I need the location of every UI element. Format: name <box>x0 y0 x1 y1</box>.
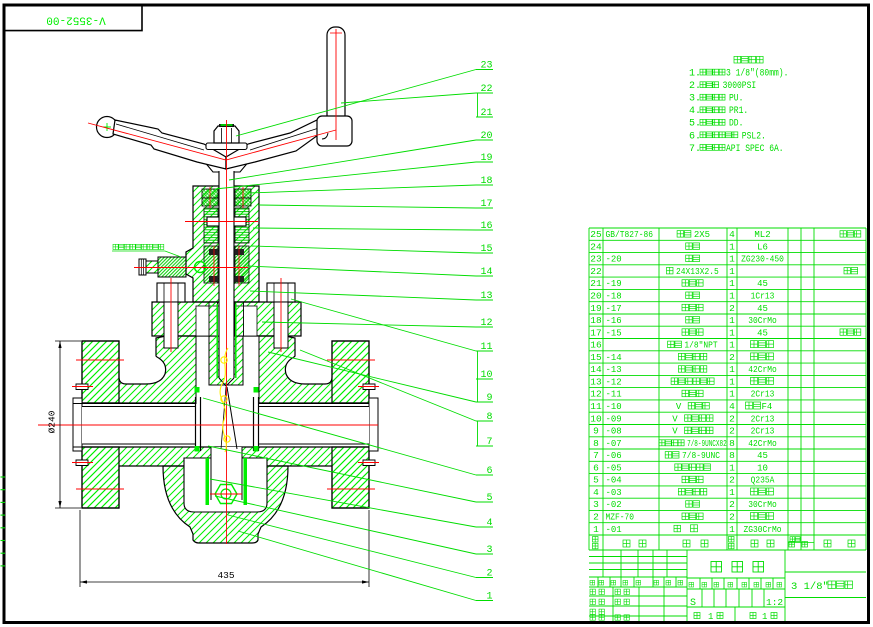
raised face ring right flange <box>369 398 378 451</box>
yellow circle 3 <box>224 436 230 442</box>
svg-text:6.: 6. <box>689 131 701 142</box>
svg-text:1: 1 <box>729 254 735 265</box>
svg-text:8: 8 <box>729 438 735 449</box>
bonnet neck wall right <box>235 302 244 336</box>
svg-text:7/8-9UNCX82: 7/8-9UNCX82 <box>687 439 727 449</box>
svg-text:23: 23 <box>590 254 602 265</box>
svg-text:1: 1 <box>729 290 735 301</box>
svg-text:21: 21 <box>590 278 602 289</box>
svg-text:Q235A: Q235A <box>751 476 775 486</box>
table header row <box>593 537 599 543</box>
svg-text:2: 2 <box>729 352 735 363</box>
svg-text:10: 10 <box>480 370 492 381</box>
svg-text:45: 45 <box>757 451 768 461</box>
svg-text:18: 18 <box>480 176 492 187</box>
svg-text:42CrMo: 42CrMo <box>748 439 777 449</box>
svg-text:18: 18 <box>590 315 602 326</box>
handle centerline polyline <box>88 123 336 160</box>
gate diagonal (item 4) <box>227 387 237 449</box>
bonnet neck extension hatched into body <box>209 336 243 385</box>
svg-text:2: 2 <box>729 413 735 424</box>
svg-text:17: 17 <box>480 199 492 210</box>
svg-text:1: 1 <box>729 340 735 351</box>
svg-text:3000PSI: 3000PSI <box>723 80 757 92</box>
svg-text:8: 8 <box>486 412 492 423</box>
bracket 8-7 <box>477 421 479 446</box>
svg-text:3: 3 <box>486 545 492 556</box>
svg-text:7/8-9UNC: 7/8-9UNC <box>682 451 721 461</box>
svg-text:1: 1 <box>729 327 735 338</box>
guide plate right green <box>244 458 248 505</box>
svg-text:-17: -17 <box>606 304 622 314</box>
svg-text:1: 1 <box>729 315 735 326</box>
svg-text:-08: -08 <box>606 427 622 437</box>
svg-text:4: 4 <box>593 487 599 498</box>
bore lower wall lines <box>73 446 196 448</box>
svg-text:5: 5 <box>486 493 492 504</box>
guide plate left (item 5) green <box>206 458 210 505</box>
balloon 6 leader/underline <box>203 398 476 475</box>
balloon 23 leader/underline <box>236 70 476 137</box>
svg-text:ML2: ML2 <box>754 230 770 240</box>
svg-text:PR1.: PR1. <box>729 105 748 117</box>
sheet numbers <box>694 613 700 619</box>
notch tick right upper <box>358 386 379 388</box>
grease fitting ball <box>195 262 206 273</box>
svg-text:12: 12 <box>480 318 492 329</box>
seat left (item 3) line pair <box>195 397 197 451</box>
svg-text:-10: -10 <box>606 402 622 412</box>
notch tick right lower <box>358 462 379 464</box>
svg-text:1: 1 <box>729 462 735 473</box>
bearing tick left <box>209 187 211 208</box>
packing rings black left top <box>209 249 218 255</box>
svg-text:1: 1 <box>593 524 599 535</box>
packing rings black right bottom <box>235 276 244 282</box>
title block outer <box>589 550 866 621</box>
yellow spring squiggle <box>220 348 228 452</box>
stud nut right <box>267 283 295 302</box>
seat right line pair <box>253 397 255 451</box>
left flange lower part <box>82 447 119 508</box>
valve body V1 hatched silhouette (upper band + flanges + lower band + bowl) <box>82 336 369 403</box>
svg-text:7.: 7. <box>689 144 701 155</box>
bonnet column hatched <box>186 186 259 302</box>
gate passage below bore <box>211 447 242 460</box>
svg-text:3 1/8"(80mm).: 3 1/8"(80mm). <box>726 68 788 80</box>
balloon 11 leader/underline <box>291 299 476 351</box>
svg-text:1: 1 <box>729 487 735 498</box>
border tick marks left edge <box>1 477 6 566</box>
svg-text:V-3552-00: V-3552-00 <box>46 14 105 26</box>
svg-text:3 1/8": 3 1/8" <box>791 581 829 593</box>
yellow circle 2 <box>221 396 227 402</box>
svg-text:-18: -18 <box>606 291 622 301</box>
svg-text:6: 6 <box>593 462 599 473</box>
svg-text:5: 5 <box>593 475 599 486</box>
svg-text:PU.: PU. <box>729 93 743 105</box>
svg-text:19: 19 <box>480 153 492 164</box>
stud centerline right <box>280 278 282 352</box>
svg-text:2X5: 2X5 <box>694 230 710 240</box>
svg-text:8: 8 <box>593 438 599 449</box>
svg-text:3.: 3. <box>689 94 701 105</box>
svg-text:V: V <box>676 402 682 412</box>
packing rings black left bottom <box>209 276 218 282</box>
svg-text:19: 19 <box>590 303 602 314</box>
svg-text:GB/T827-86: GB/T827-86 <box>606 230 654 240</box>
svg-text:13: 13 <box>590 376 602 387</box>
flange notch left lower <box>76 460 88 466</box>
svg-text:20: 20 <box>480 131 492 142</box>
grease fitting assembly (items 16/2) <box>158 257 186 277</box>
balloon 4 leader/underline <box>210 479 476 527</box>
svg-text:20: 20 <box>590 290 602 301</box>
balloon 15 leader/underline <box>251 246 476 253</box>
bore upper wall lines <box>73 403 196 405</box>
stud shank left <box>164 302 178 348</box>
svg-text:1: 1 <box>729 364 735 375</box>
svg-text:-13: -13 <box>606 365 622 375</box>
svg-text:11: 11 <box>480 342 492 353</box>
svg-text:16: 16 <box>480 221 492 232</box>
bottom bowl of body <box>163 466 288 543</box>
svg-text:MZF-70: MZF-70 <box>606 513 635 523</box>
vertical grip centerline <box>335 29 337 140</box>
bottom grease valve hex (item 2) <box>215 485 237 504</box>
body lower band <box>82 447 369 508</box>
svg-text:4: 4 <box>486 518 492 529</box>
svg-text:V: V <box>672 414 678 424</box>
svg-text:1: 1 <box>729 524 735 535</box>
svg-text:-01: -01 <box>606 525 622 535</box>
handwheel hub hexagon <box>203 149 250 172</box>
svg-text:22: 22 <box>590 266 602 277</box>
svg-text:42CrMo: 42CrMo <box>748 365 777 375</box>
balloon 5 leader/underline <box>208 446 476 502</box>
svg-text:1/8"NPT: 1/8"NPT <box>684 341 718 351</box>
right flange lower part <box>332 447 369 508</box>
svg-text:17: 17 <box>590 327 601 338</box>
balloon 8 leader/underline <box>300 350 476 421</box>
svg-text:1: 1 <box>486 592 492 603</box>
svg-text:-09: -09 <box>606 414 622 424</box>
bearing block left (item 19 area) <box>202 189 218 198</box>
balloon 1 leader/underline <box>238 531 476 601</box>
svg-text:2: 2 <box>593 512 599 523</box>
svg-text:14: 14 <box>480 267 492 278</box>
svg-text:1: 1 <box>762 612 767 622</box>
flange notch right lower <box>363 460 375 466</box>
svg-text:45: 45 <box>757 304 768 314</box>
bore horizontal centerline <box>38 424 378 426</box>
lower packing left <box>204 246 218 283</box>
svg-text:9: 9 <box>486 393 492 404</box>
stem tip cone <box>219 378 234 386</box>
svg-text:6: 6 <box>486 466 492 477</box>
svg-text:Ø240: Ø240 <box>47 410 58 433</box>
svg-text:12: 12 <box>590 389 602 400</box>
svg-text:22: 22 <box>480 84 492 95</box>
svg-text:2: 2 <box>729 426 735 437</box>
right flange upper part <box>332 341 369 403</box>
svg-text:24X13X2.5: 24X13X2.5 <box>676 267 719 277</box>
svg-text:11: 11 <box>590 401 602 412</box>
svg-text:F4: F4 <box>762 402 773 412</box>
vertical grip of handle <box>327 27 345 123</box>
svg-text:ZG30CrMo: ZG30CrMo <box>744 525 782 535</box>
svg-text:25: 25 <box>590 229 602 240</box>
right flange bolt line lower <box>327 488 375 490</box>
balloon 2 leader/underline <box>228 515 476 578</box>
svg-text:45: 45 <box>757 279 768 289</box>
notch tick left lower <box>72 462 93 464</box>
svg-text:-11: -11 <box>606 390 622 400</box>
balloon 22 leader/underline <box>341 93 476 103</box>
main vertical centerline <box>226 120 228 544</box>
dimension D240 left <box>55 340 81 342</box>
packing column left threads <box>204 208 218 243</box>
svg-text:-16: -16 <box>606 316 622 326</box>
annotation text (align with stem note) <box>113 244 164 249</box>
packing tick right <box>238 246 240 286</box>
balloon 16 leader/underline <box>253 228 476 230</box>
bottom chamber cavity (white) <box>184 458 267 512</box>
balloon 7 leader/underline <box>476 445 493 447</box>
svg-text:2: 2 <box>729 475 735 486</box>
right flange bolt line upper <box>327 359 375 361</box>
stem seal lines green right <box>235 304 237 378</box>
svg-text:21: 21 <box>480 108 492 119</box>
svg-text:-07: -07 <box>606 439 622 449</box>
handwheel left grip circle <box>97 117 118 138</box>
balloon 21 leader/underline <box>476 116 493 118</box>
yellow circle 1 <box>221 357 227 363</box>
balloon 20 leader/underline <box>229 140 476 180</box>
raised face ring left flange <box>73 398 82 451</box>
stem seal lines green left <box>216 304 218 378</box>
svg-text:-02: -02 <box>606 500 622 510</box>
bonnet neck wall left <box>209 302 218 336</box>
svg-text:4: 4 <box>729 229 735 240</box>
parts table grid <box>589 228 866 550</box>
svg-text:1: 1 <box>729 376 735 387</box>
plug crosshair red <box>210 493 242 495</box>
svg-text:API SPEC 6A.: API SPEC 6A. <box>726 143 784 155</box>
svg-text:10: 10 <box>757 463 768 473</box>
title strip box top-left <box>4 5 142 31</box>
stem (item 20) white shaft <box>219 148 234 378</box>
svg-text:2Cr13: 2Cr13 <box>751 390 775 400</box>
svg-text:7: 7 <box>486 437 492 448</box>
svg-text:1.: 1. <box>689 69 701 80</box>
svg-text:2: 2 <box>729 303 735 314</box>
svg-text:3: 3 <box>593 499 599 510</box>
bracket 22-21 <box>477 93 479 117</box>
title: assembly drawing big text <box>711 562 722 573</box>
svg-text:ZG230-450: ZG230-450 <box>741 255 784 265</box>
flange notch left upper <box>76 384 88 390</box>
tiny rev header texts <box>590 580 595 585</box>
svg-text:-03: -03 <box>606 488 622 498</box>
svg-text:4.: 4. <box>689 106 701 117</box>
svg-text:-20: -20 <box>606 255 622 265</box>
tech requirements title <box>734 56 763 63</box>
svg-text:1: 1 <box>729 266 735 277</box>
svg-text:1: 1 <box>708 612 713 622</box>
stem between hub and bonnet <box>219 171 234 186</box>
packing rings black right top <box>235 249 244 255</box>
stud shank right <box>274 302 288 348</box>
svg-text:30CrMo: 30CrMo <box>748 316 777 326</box>
svg-text:-04: -04 <box>606 476 622 486</box>
svg-text:5.: 5. <box>689 119 701 130</box>
svg-text:2Cr13: 2Cr13 <box>751 414 775 424</box>
bonnet flange plate <box>152 302 301 336</box>
washer under nut <box>206 143 247 150</box>
stud nut left (item 7) <box>157 283 185 302</box>
gate chamber white interior <box>196 336 259 404</box>
grip top tick <box>330 32 342 34</box>
svg-text:13: 13 <box>480 291 492 302</box>
svg-text:10: 10 <box>590 413 602 424</box>
packing column right threads <box>235 208 249 243</box>
signature labels <box>590 589 595 594</box>
svg-text:2: 2 <box>729 499 735 510</box>
left flange upper part <box>82 341 119 403</box>
svg-text:24: 24 <box>590 241 602 252</box>
svg-text:435: 435 <box>217 570 234 581</box>
balloon 13 leader/underline <box>250 291 476 300</box>
svg-text:2: 2 <box>486 569 492 580</box>
stem washer bar <box>207 217 246 226</box>
svg-text:2.: 2. <box>689 81 701 92</box>
svg-text:DD.: DD. <box>729 118 743 130</box>
balloon 17 leader/underline <box>259 205 476 208</box>
balloon 19 leader/underline <box>215 162 476 189</box>
balloon 14 leader/underline <box>248 266 476 276</box>
svg-text:-05: -05 <box>606 463 622 473</box>
svg-text:-14: -14 <box>606 353 622 363</box>
grease fitting hex cap <box>139 259 146 275</box>
svg-text:-15: -15 <box>606 328 622 338</box>
notch tick left upper <box>72 386 93 388</box>
svg-text:-12: -12 <box>606 377 622 387</box>
svg-text:PSL2.: PSL2. <box>742 130 766 142</box>
bearing tick right <box>242 187 244 208</box>
balloon 18 leader/underline <box>248 185 476 193</box>
left flange bolt line lower <box>76 488 124 490</box>
svg-text:1: 1 <box>729 241 735 252</box>
handwheel right arm <box>226 120 325 169</box>
svg-text:7: 7 <box>593 450 599 461</box>
svg-text:-06: -06 <box>606 451 622 461</box>
svg-text:9: 9 <box>593 426 599 437</box>
bonnet flange slot white <box>196 306 257 336</box>
svg-text:8: 8 <box>729 450 735 461</box>
svg-text:14: 14 <box>590 364 602 375</box>
right corner block of handle <box>317 116 352 146</box>
packing tick left <box>213 246 215 286</box>
tiny header cells middle <box>689 582 694 587</box>
balloon 3 leader/underline <box>215 496 476 554</box>
lower packing right <box>235 246 249 283</box>
seat seal squares green <box>195 387 200 393</box>
svg-text:1Cr13: 1Cr13 <box>751 291 775 301</box>
washer bar centerline <box>185 221 258 223</box>
svg-text:30CrMo: 30CrMo <box>748 500 777 510</box>
balloon 10 leader/underline <box>476 378 493 380</box>
handwheel left arm <box>113 120 226 169</box>
grease fitting centerline <box>134 267 248 269</box>
svg-text:16: 16 <box>590 340 602 351</box>
svg-text:4: 4 <box>729 401 735 412</box>
svg-text:-19: -19 <box>606 279 622 289</box>
svg-text:45: 45 <box>757 328 768 338</box>
svg-text:23: 23 <box>480 61 492 72</box>
svg-text:2: 2 <box>729 512 735 523</box>
bracket 11-10-9 <box>477 351 479 402</box>
balloon 9 leader/underline <box>268 352 476 402</box>
left flange bolt line upper <box>76 359 124 361</box>
stud centerline left <box>170 278 172 352</box>
svg-text:15: 15 <box>590 352 602 363</box>
svg-text:1: 1 <box>729 278 735 289</box>
dimension 435 bottom <box>79 510 81 587</box>
svg-text:L6: L6 <box>757 242 768 252</box>
balloon 12 leader/underline <box>262 322 476 327</box>
stem nut on hub <box>214 126 239 143</box>
bearing block right <box>235 189 251 198</box>
svg-text:2Cr13: 2Cr13 <box>751 427 775 437</box>
svg-text:S: S <box>690 598 696 609</box>
svg-text:V: V <box>672 427 678 437</box>
flange notch right upper <box>363 384 375 390</box>
svg-text:1:2: 1:2 <box>766 597 783 608</box>
svg-text:1: 1 <box>729 389 735 400</box>
svg-text:15: 15 <box>480 244 492 255</box>
flow bore channel (white) <box>82 407 369 445</box>
